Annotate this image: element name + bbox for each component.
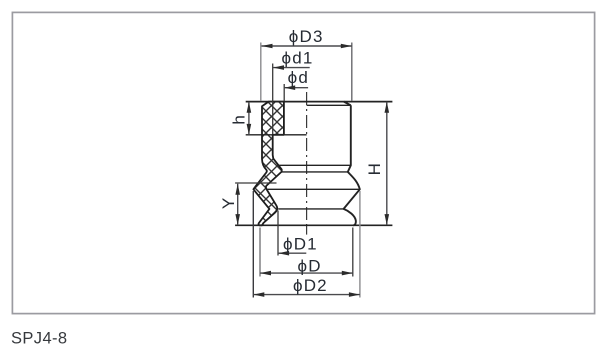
svg-text:ϕd1: ϕd1 <box>281 49 313 68</box>
top face line (with h/H extensions) <box>246 101 393 103</box>
arrowheads <box>235 44 389 297</box>
centerline <box>306 92 308 226</box>
step line + h bottom extension <box>246 134 307 136</box>
bottom face line (with Y/H extensions) <box>235 224 392 226</box>
sectioned wall (left half) hatched <box>253 102 284 226</box>
svg-text:h: h <box>230 114 249 125</box>
ridge line <box>267 188 360 190</box>
neck chamfer edge <box>282 171 348 173</box>
svg-text:SPJ4-8: SPJ4-8 <box>11 330 68 348</box>
cylinder bottom edge <box>279 164 351 166</box>
svg-text:ϕD2: ϕD2 <box>293 276 328 295</box>
svg-text:ϕd: ϕd <box>288 68 309 87</box>
top chamfer right <box>344 102 351 106</box>
extension lines vertical <box>260 43 262 102</box>
svg-text:H: H <box>365 162 384 175</box>
chamfer base edge line <box>307 104 351 106</box>
svg-text:ϕD: ϕD <box>297 256 321 275</box>
dimension lines <box>238 46 387 295</box>
right outer silhouette <box>344 105 360 225</box>
svg-text:ϕD3: ϕD3 <box>289 27 324 46</box>
Y top extension line <box>235 182 276 184</box>
labels <box>219 27 384 295</box>
svg-text:ϕD1: ϕD1 <box>283 235 318 254</box>
elbow line <box>278 208 343 210</box>
svg-text:Y: Y <box>219 197 238 210</box>
